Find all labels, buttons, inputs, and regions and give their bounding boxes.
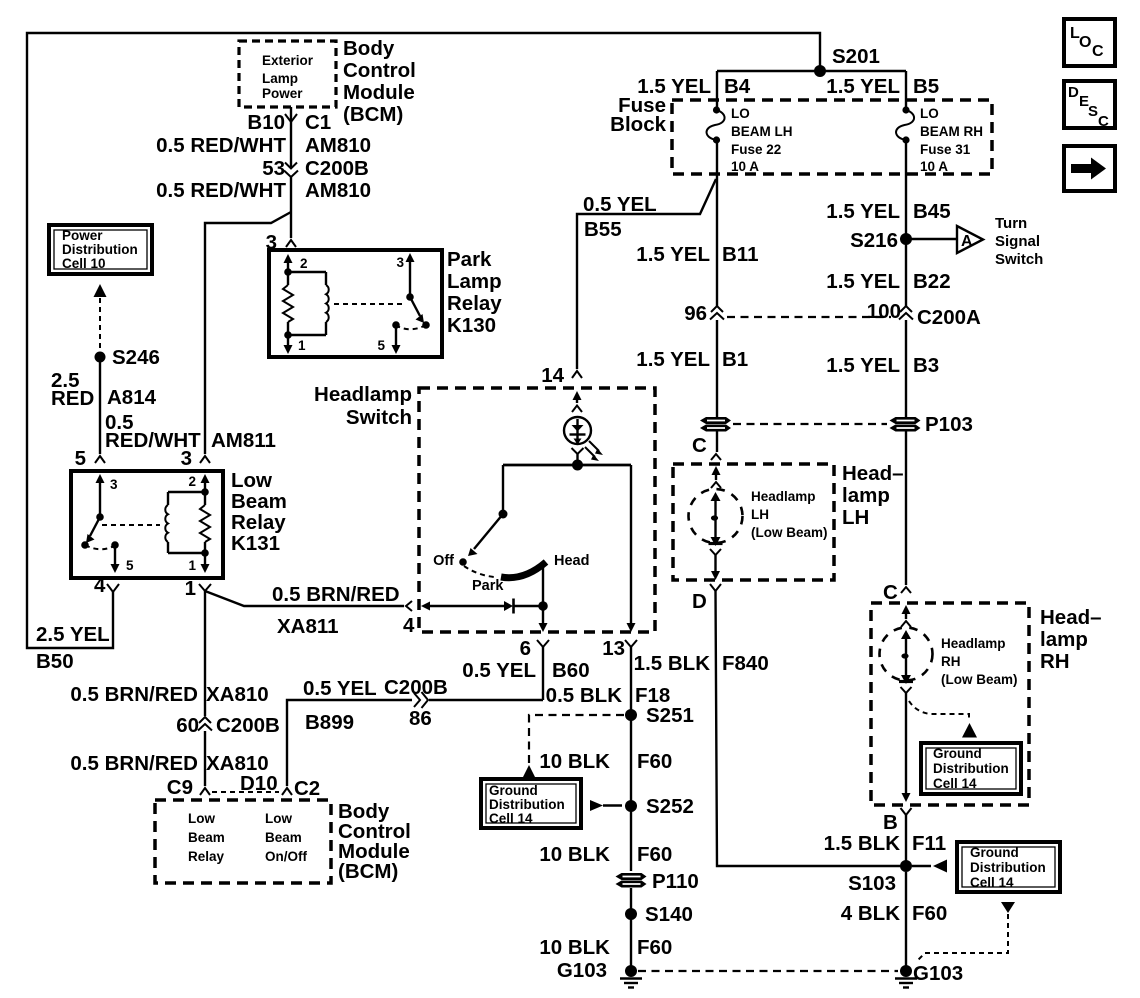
svg-text:LH: LH bbox=[751, 507, 769, 522]
svg-text:1.5 BLK: 1.5 BLK bbox=[824, 832, 901, 855]
svg-text:RED: RED bbox=[51, 387, 94, 410]
svg-text:Distribution: Distribution bbox=[489, 797, 565, 812]
icon box LOC bbox=[1064, 19, 1115, 66]
label Body Control Module (BCM) bottom bbox=[338, 800, 411, 883]
off-page connector A turn signal switch bbox=[957, 226, 983, 253]
svg-text:1: 1 bbox=[185, 577, 196, 600]
connector C1 pin B10 bbox=[247, 111, 331, 134]
svg-text:5: 5 bbox=[75, 447, 86, 470]
label LO BEAM RH Fuse 31 10 A bbox=[920, 106, 983, 174]
svg-text:Head: Head bbox=[554, 553, 589, 569]
K130 resistor bbox=[283, 272, 293, 335]
svg-text:0.5 RED/WHT: 0.5 RED/WHT bbox=[156, 179, 286, 202]
svg-text:Off: Off bbox=[433, 553, 454, 569]
pin D headlamp LH bbox=[692, 584, 721, 613]
wire F60 10 BLK S140 to G103 bbox=[630, 914, 632, 966]
label 1.5 YEL B45 bbox=[826, 200, 950, 223]
exterior lamp power dashed box BCM bbox=[239, 41, 336, 107]
arrow below reference box to G103 bbox=[1001, 902, 1015, 913]
svg-text:0.5 YEL: 0.5 YEL bbox=[583, 193, 657, 216]
svg-text:Turn: Turn bbox=[995, 215, 1027, 232]
wire AM810 0.5 RED/WHT BCM B10 to C200B bbox=[290, 107, 292, 167]
svg-text:0.5 RED/WHT: 0.5 RED/WHT bbox=[156, 134, 286, 157]
svg-text:Cell 14: Cell 14 bbox=[489, 811, 533, 826]
svg-text:S251: S251 bbox=[646, 704, 694, 727]
K130 pin 3 internal armature bbox=[396, 253, 429, 329]
svg-text:BEAM LH: BEAM LH bbox=[731, 124, 793, 139]
wire headlamp RH bulb to pin B bbox=[902, 693, 911, 802]
svg-text:Distribution: Distribution bbox=[970, 860, 1046, 875]
svg-text:F840: F840 bbox=[722, 652, 769, 675]
svg-text:LH: LH bbox=[842, 506, 869, 529]
svg-text:Cell 14: Cell 14 bbox=[970, 875, 1014, 890]
svg-text:Low: Low bbox=[188, 811, 215, 826]
svg-text:K131: K131 bbox=[231, 532, 280, 555]
svg-text:Ground: Ground bbox=[933, 746, 982, 761]
switch internal bus junction bbox=[503, 460, 631, 471]
park lamp relay K130 box bbox=[269, 250, 442, 357]
svg-text:F60: F60 bbox=[637, 936, 672, 959]
ground distribution cell 14 reference box left bbox=[481, 779, 581, 828]
wire XA811 0.5 BRN/RED K131 pin 1 to headlamp switch pin 4 bbox=[205, 591, 404, 606]
svg-text:AM810: AM810 bbox=[305, 134, 371, 157]
svg-text:C200B: C200B bbox=[305, 157, 369, 180]
wire P103 RH to headlamp RH pin C bbox=[905, 431, 907, 585]
wire AM810 0.5 RED/WHT C200B to park lamp relay bbox=[290, 177, 292, 238]
splice S103 bbox=[848, 860, 912, 895]
wire F11 1.5 BLK to S103 bbox=[905, 815, 907, 866]
connector P103 RH half bbox=[890, 413, 973, 436]
wire A814 0.5 RED/WHT S246 to K131 pin 5 bbox=[99, 357, 101, 454]
pin 13 headlamp switch bbox=[602, 637, 637, 660]
label 1.5 YEL B3 bbox=[826, 354, 939, 377]
pin B headlamp RH bbox=[883, 808, 912, 834]
label 0.5 BRN/RED XA810 lower bbox=[70, 752, 268, 775]
svg-text:B3: B3 bbox=[913, 354, 939, 377]
svg-text:S103: S103 bbox=[848, 872, 896, 895]
K131 pin 3 internal armature bbox=[81, 474, 118, 549]
label Park Lamp Relay K130 bbox=[447, 248, 502, 337]
connector C200B pin 86 bbox=[384, 676, 448, 730]
wire XA810 0.5 BRN/RED K131 pin 1 to BCM C9 bbox=[204, 591, 206, 716]
svg-text:0.5 BRN/RED: 0.5 BRN/RED bbox=[272, 583, 400, 606]
label 1.5 YEL B5 bbox=[826, 75, 939, 98]
svg-text:1.5 YEL: 1.5 YEL bbox=[826, 200, 900, 223]
K131 pin 5 internal bbox=[111, 541, 135, 573]
label 0.5 RED/WHT AM810 bbox=[156, 134, 371, 157]
label Low Beam Relay inside BCM bbox=[188, 811, 225, 864]
svg-text:13: 13 bbox=[602, 637, 625, 660]
svg-text:Low: Low bbox=[231, 469, 272, 492]
K131 pin 1 internal bbox=[188, 549, 209, 573]
label LO BEAM LH Fuse 22 10 A bbox=[731, 106, 793, 174]
ground G103 right bbox=[895, 962, 963, 988]
svg-text:2.5 YEL: 2.5 YEL bbox=[36, 623, 110, 646]
svg-text:Signal: Signal bbox=[995, 233, 1040, 250]
svg-text:S140: S140 bbox=[645, 903, 693, 926]
wire B55 0.5 YEL branch to headlamp switch pin 14 bbox=[577, 179, 716, 369]
svg-text:(Low Beam): (Low Beam) bbox=[751, 525, 828, 540]
svg-text:B5: B5 bbox=[913, 75, 939, 98]
svg-text:S: S bbox=[1088, 103, 1098, 120]
headlamp RH internal feed arrow bbox=[901, 605, 911, 627]
svg-text:100: 100 bbox=[867, 300, 901, 323]
svg-text:Control: Control bbox=[343, 59, 416, 82]
arrow from ground distribution to S252 bbox=[590, 800, 622, 811]
headlamp RH dashed box bbox=[871, 603, 1029, 805]
svg-text:1.5 YEL: 1.5 YEL bbox=[826, 270, 900, 293]
svg-text:0.5 YEL: 0.5 YEL bbox=[462, 659, 536, 682]
fuse block dashed box bbox=[672, 100, 992, 174]
K130 coil to armature dashed link bbox=[334, 303, 404, 305]
svg-text:RH: RH bbox=[1040, 650, 1070, 673]
connector C200A pin 96 bbox=[684, 302, 724, 325]
wire segment S201 bus to B4 and B5 bbox=[717, 70, 906, 72]
svg-text:Relay: Relay bbox=[447, 292, 502, 315]
pin 14 headlamp switch bbox=[541, 364, 582, 387]
svg-text:10 A: 10 A bbox=[731, 159, 759, 174]
svg-text:(BCM): (BCM) bbox=[343, 103, 403, 126]
svg-text:1.5 YEL: 1.5 YEL bbox=[826, 354, 900, 377]
svg-text:5: 5 bbox=[377, 338, 385, 353]
dashed reference link to S246 bbox=[99, 298, 101, 352]
svg-text:C1: C1 bbox=[305, 111, 331, 134]
svg-text:F60: F60 bbox=[637, 843, 672, 866]
svg-text:1: 1 bbox=[298, 338, 306, 353]
label 10 BLK F60 third bbox=[539, 936, 672, 959]
wire B60 0.5 YEL pin 6 down bbox=[542, 647, 544, 700]
svg-text:0.5 BRN/RED: 0.5 BRN/RED bbox=[70, 752, 198, 775]
label 1.5 YEL B1 bbox=[636, 348, 748, 371]
svg-text:Ground: Ground bbox=[970, 845, 1019, 860]
power distribution cell 10 reference box bbox=[49, 225, 152, 274]
svg-text:Headlamp: Headlamp bbox=[314, 383, 412, 406]
panel lamp symbol in switch bbox=[564, 417, 591, 445]
splice S252 bbox=[625, 795, 694, 818]
svg-text:O: O bbox=[1079, 34, 1091, 51]
svg-text:Beam: Beam bbox=[231, 490, 287, 513]
svg-text:Head–: Head– bbox=[1040, 606, 1102, 629]
svg-text:Module: Module bbox=[343, 81, 415, 104]
pin C headlamp RH bbox=[883, 581, 911, 604]
svg-text:60: 60 bbox=[176, 714, 199, 737]
svg-text:Fuse 22: Fuse 22 bbox=[731, 142, 781, 157]
wire B11 1.5 YEL LH column fuse to C200A bbox=[716, 143, 718, 306]
svg-text:Power: Power bbox=[262, 86, 303, 101]
label Head-lamp RH bbox=[1040, 606, 1102, 673]
svg-text:B4: B4 bbox=[724, 75, 751, 98]
pin 4 headlamp switch bbox=[403, 601, 415, 637]
icon box DESC bbox=[1064, 81, 1115, 130]
svg-text:C9: C9 bbox=[167, 776, 193, 799]
svg-text:C: C bbox=[883, 581, 898, 604]
ground distribution cell 14 reference box bottom right bbox=[957, 842, 1060, 892]
svg-text:B55: B55 bbox=[584, 218, 622, 241]
svg-text:C: C bbox=[1098, 113, 1109, 130]
arrow to ground distribution cell 14 bottom right bbox=[912, 860, 947, 873]
svg-text:Beam: Beam bbox=[188, 830, 225, 845]
label 1.5 YEL B22 bbox=[826, 270, 950, 293]
wire B5 1.5 YEL bbox=[905, 71, 907, 108]
wire junction to pin 6 exit bbox=[539, 606, 548, 632]
splice S216 bbox=[850, 229, 912, 252]
headlamp switch dashed box bbox=[419, 388, 655, 632]
wire Head contact down to pin 6 junction bbox=[538, 565, 548, 611]
wire to turn signal switch bbox=[906, 238, 956, 240]
label 1.5 BLK F11 bbox=[824, 832, 947, 855]
svg-text:Distribution: Distribution bbox=[62, 242, 138, 257]
svg-text:S201: S201 bbox=[832, 45, 880, 68]
label 1.5 YEL B4 bbox=[637, 75, 751, 98]
svg-text:B11: B11 bbox=[722, 243, 758, 266]
pin 3 K131 bbox=[181, 447, 210, 470]
arrow to power distribution bbox=[94, 284, 107, 297]
svg-text:10 BLK: 10 BLK bbox=[539, 843, 610, 866]
svg-text:B1: B1 bbox=[722, 348, 748, 371]
svg-text:A: A bbox=[961, 233, 973, 250]
connector C9 pin bbox=[167, 776, 210, 799]
wire B50 2.5 YEL frame loop from K131 pin 4 up and across top to S201 bbox=[27, 33, 820, 648]
label 1.5 BLK F840 bbox=[634, 652, 769, 675]
svg-text:Fuse 31: Fuse 31 bbox=[920, 142, 971, 157]
pin C headlamp LH bbox=[692, 434, 721, 460]
wire 4 BLK F60 S103 to G103 bbox=[905, 872, 907, 966]
svg-text:D: D bbox=[1068, 84, 1079, 101]
connector P103 dashed link bbox=[733, 423, 887, 425]
label 0.5 BRN/RED XA811 bbox=[272, 583, 400, 638]
ground G103 left bbox=[557, 959, 642, 988]
wire bus to pin 13 exit bbox=[627, 465, 636, 632]
wire F840 1.5 BLK headlamp LH ground to S103 bbox=[716, 591, 907, 866]
label 0.5 RED/WHT AM811 bbox=[105, 411, 276, 452]
svg-text:0.5 YEL: 0.5 YEL bbox=[303, 677, 377, 700]
svg-text:1: 1 bbox=[188, 558, 196, 573]
svg-text:S246: S246 bbox=[112, 346, 160, 369]
svg-text:0.5 BRN/RED: 0.5 BRN/RED bbox=[70, 683, 198, 706]
svg-text:B45: B45 bbox=[913, 200, 951, 223]
svg-text:5: 5 bbox=[126, 558, 134, 573]
wire F18 0.5 BLK pin 13 to S251 bbox=[630, 647, 632, 715]
label Low Beam On/Off inside BCM bbox=[265, 811, 307, 864]
svg-text:Cell 14: Cell 14 bbox=[933, 776, 977, 791]
svg-text:Low: Low bbox=[265, 811, 292, 826]
label Head-lamp LH bbox=[842, 462, 904, 529]
svg-text:Head–: Head– bbox=[842, 462, 904, 485]
svg-text:Park: Park bbox=[447, 248, 492, 271]
splice S140 bbox=[625, 903, 693, 926]
arrow to ground distribution cell 14 left bbox=[522, 765, 536, 779]
K131 armature to coil dashed link bbox=[102, 524, 160, 526]
svg-text:Lamp: Lamp bbox=[447, 270, 502, 293]
K131 pin 2 internal bbox=[188, 474, 209, 496]
svg-text:1.5 YEL: 1.5 YEL bbox=[826, 75, 900, 98]
svg-text:AM811: AM811 bbox=[211, 429, 276, 452]
label 10 BLK F60 bbox=[539, 750, 672, 773]
svg-text:D: D bbox=[692, 590, 707, 613]
svg-text:A814: A814 bbox=[107, 386, 157, 409]
svg-text:On/Off: On/Off bbox=[265, 849, 307, 864]
headlamp RH bulb low beam bbox=[880, 628, 933, 694]
connector C200A dashed link bbox=[727, 316, 891, 318]
wire LH P103 to headlamp LH pin C bbox=[716, 431, 718, 452]
Off to Park dashed arc bbox=[464, 566, 494, 577]
headlamp LH bulb low beam bbox=[689, 489, 743, 580]
svg-text:Relay: Relay bbox=[188, 849, 225, 864]
svg-text:B60: B60 bbox=[552, 659, 590, 682]
svg-text:Cell 10: Cell 10 bbox=[62, 256, 106, 271]
svg-text:C200B: C200B bbox=[216, 714, 280, 737]
svg-text:Exterior: Exterior bbox=[262, 53, 314, 68]
svg-text:1.5 BLK: 1.5 BLK bbox=[634, 652, 711, 675]
label 4 BLK F60 bbox=[841, 902, 948, 925]
dashed reference from RH bulb to ground distribution bbox=[909, 701, 969, 721]
svg-text:10 BLK: 10 BLK bbox=[539, 750, 610, 773]
svg-text:3: 3 bbox=[110, 477, 118, 492]
switch pin 4 internal arrow and diode bbox=[421, 599, 543, 614]
connector C2 pin bbox=[282, 777, 320, 800]
svg-text:P110: P110 bbox=[652, 870, 699, 893]
pin 1 K131 below box bbox=[185, 577, 211, 600]
svg-text:S216: S216 bbox=[850, 229, 898, 252]
svg-text:B22: B22 bbox=[913, 270, 951, 293]
svg-text:Beam: Beam bbox=[265, 830, 302, 845]
svg-text:1.5 YEL: 1.5 YEL bbox=[636, 243, 710, 266]
wire B4 1.5 YEL bbox=[716, 71, 718, 108]
svg-text:Lamp: Lamp bbox=[262, 71, 298, 86]
svg-text:10 BLK: 10 BLK bbox=[539, 936, 610, 959]
svg-text:K130: K130 bbox=[447, 314, 496, 337]
K130 pin 2 internal bbox=[284, 254, 308, 276]
label 1.5 YEL B11 bbox=[636, 243, 758, 266]
svg-text:Power: Power bbox=[62, 228, 103, 243]
label Low Beam Relay K131 bbox=[231, 469, 287, 555]
svg-text:1.5 YEL: 1.5 YEL bbox=[636, 348, 710, 371]
svg-text:0.5 BLK: 0.5 BLK bbox=[546, 684, 623, 707]
wire B1 1.5 YEL C200A to P103 bbox=[716, 320, 718, 417]
wire B45 1.5 YEL RH fuse to S216 bbox=[905, 143, 907, 306]
svg-text:Relay: Relay bbox=[231, 511, 286, 534]
svg-text:Switch: Switch bbox=[346, 406, 412, 429]
connector P103 LH half bbox=[700, 417, 731, 432]
K131 resistor bbox=[200, 492, 210, 553]
svg-text:3: 3 bbox=[181, 447, 192, 470]
connector C200A pin 100 bbox=[867, 300, 981, 329]
svg-text:53: 53 bbox=[262, 157, 285, 180]
wire B3 1.5 YEL C200A to P103 RH bbox=[905, 320, 907, 417]
svg-text:Headlamp: Headlamp bbox=[751, 489, 816, 504]
lamp light rays bbox=[585, 441, 603, 461]
svg-text:XA810: XA810 bbox=[206, 683, 269, 706]
switch wiper feed bbox=[468, 465, 508, 556]
K130 pin 1 internal bbox=[284, 331, 307, 354]
svg-text:B899: B899 bbox=[305, 711, 354, 734]
svg-text:F60: F60 bbox=[912, 902, 947, 925]
svg-text:10 A: 10 A bbox=[920, 159, 948, 174]
label 0.5 BLK F18 bbox=[546, 684, 671, 707]
svg-text:Headlamp: Headlamp bbox=[941, 636, 1006, 651]
wire F60 P110 to S140 bbox=[630, 888, 632, 914]
svg-text:B50: B50 bbox=[36, 650, 74, 673]
svg-text:3: 3 bbox=[396, 255, 404, 270]
connector P110 bbox=[616, 870, 699, 893]
label Headlamp Switch bbox=[314, 383, 412, 429]
switch internal feed arrow pin 14 bbox=[572, 391, 582, 412]
svg-text:Park: Park bbox=[472, 578, 504, 594]
wire F60 10 BLK S252 to P110 bbox=[630, 806, 632, 871]
connector C200B pin 60 bbox=[176, 714, 280, 737]
ground distribution cell 14 reference box RH bbox=[921, 743, 1021, 794]
svg-text:G103: G103 bbox=[557, 959, 607, 982]
dashed reference link to G103 bbox=[917, 914, 1008, 961]
K130 contact gap dashed arc bbox=[397, 325, 426, 329]
svg-text:AM810: AM810 bbox=[305, 179, 371, 202]
svg-text:Switch: Switch bbox=[995, 251, 1043, 268]
svg-text:LO: LO bbox=[731, 106, 750, 121]
arrow to ground distribution cell 14 RH bbox=[962, 723, 977, 738]
lamp to bus chevron bbox=[572, 448, 584, 465]
svg-text:G103: G103 bbox=[913, 962, 963, 985]
svg-text:4 BLK: 4 BLK bbox=[841, 902, 900, 925]
svg-text:B: B bbox=[883, 811, 898, 834]
dashed link between G103 grounds bbox=[638, 970, 898, 972]
wire F60 10 BLK S251 to S252 bbox=[630, 715, 632, 806]
svg-text:RH: RH bbox=[941, 654, 961, 669]
svg-text:Block: Block bbox=[610, 113, 666, 136]
svg-text:96: 96 bbox=[684, 302, 707, 325]
svg-text:Body: Body bbox=[343, 37, 395, 60]
svg-text:(BCM): (BCM) bbox=[338, 860, 398, 883]
pin 5 K131 bbox=[75, 447, 105, 470]
svg-text:2: 2 bbox=[300, 256, 308, 271]
svg-text:4: 4 bbox=[403, 614, 415, 637]
body control module dashed box bottom bbox=[155, 800, 331, 883]
svg-text:C: C bbox=[1092, 43, 1104, 60]
svg-text:Ground: Ground bbox=[489, 783, 538, 798]
svg-text:C200A: C200A bbox=[917, 306, 981, 329]
svg-text:(Low Beam): (Low Beam) bbox=[941, 672, 1018, 687]
label Fuse Block bbox=[610, 94, 666, 136]
svg-text:2: 2 bbox=[188, 474, 196, 489]
splice S251 bbox=[625, 704, 694, 727]
svg-text:P103: P103 bbox=[925, 413, 973, 436]
connector D10 dashed link bbox=[212, 772, 279, 795]
splice S246 bbox=[95, 346, 160, 369]
pin 6 headlamp switch bbox=[520, 637, 549, 660]
svg-text:6: 6 bbox=[520, 637, 531, 660]
pin 3 park lamp relay bbox=[266, 231, 296, 254]
icon box arrow bbox=[1064, 146, 1115, 191]
svg-text:14: 14 bbox=[541, 364, 564, 387]
K130 pin 5 internal bbox=[377, 321, 400, 354]
label Body Control Module (BCM) top bbox=[343, 37, 416, 126]
label Turn Signal Switch bbox=[995, 215, 1043, 268]
svg-text:F11: F11 bbox=[912, 832, 946, 855]
svg-text:BEAM RH: BEAM RH bbox=[920, 124, 983, 139]
svg-text:86: 86 bbox=[409, 707, 432, 730]
K131 contact gap dashed arc bbox=[85, 545, 114, 549]
fuse 31 LO BEAM RH symbol bbox=[896, 106, 914, 143]
label Headlamp LH (Low Beam) bbox=[751, 489, 828, 540]
headlamp LH internal feed arrow bbox=[711, 466, 721, 488]
wire B899 0.5 YEL to BCM C2 bbox=[429, 699, 543, 701]
splice S201 bbox=[814, 45, 880, 77]
svg-text:C: C bbox=[692, 434, 707, 457]
low beam relay K131 box bbox=[71, 471, 223, 578]
wire AM811 branch to low beam relay bbox=[205, 212, 291, 454]
wire XA810 lower to BCM bbox=[204, 731, 206, 786]
label 2.5 RED A814 bbox=[51, 369, 157, 410]
fuse 22 LO BEAM LH symbol bbox=[707, 106, 725, 143]
